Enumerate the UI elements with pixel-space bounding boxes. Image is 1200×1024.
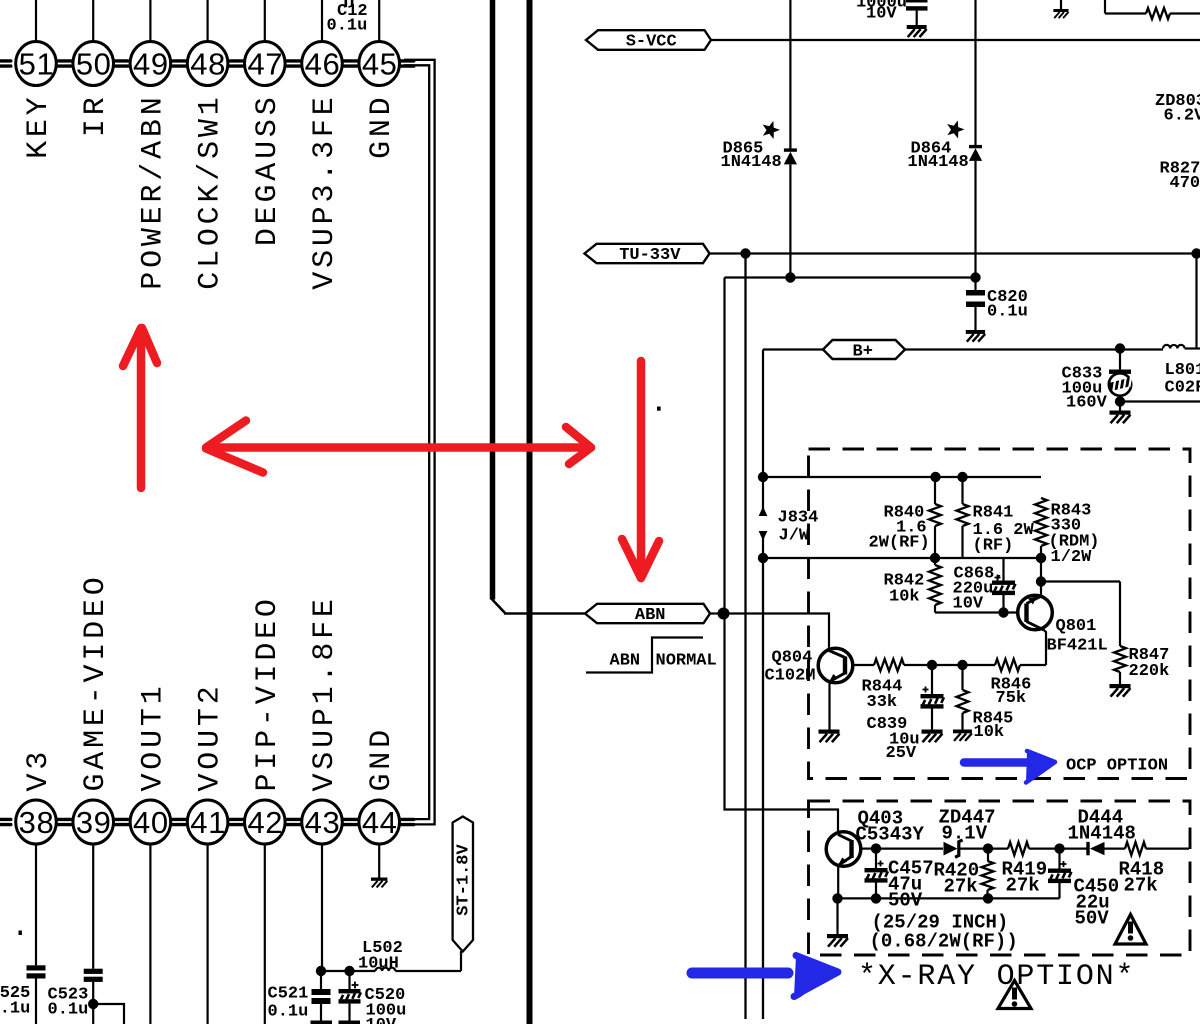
- transistor Q804 (C102M): [765, 648, 853, 729]
- svg-text:10k: 10k: [889, 588, 920, 607]
- svg-text:48: 48: [190, 47, 226, 82]
- svg-text:160V: 160V: [1066, 394, 1108, 413]
- dot artifact mid: [657, 407, 661, 411]
- svg-text:51: 51: [19, 47, 55, 82]
- svg-text:1N4148: 1N4148: [721, 153, 782, 172]
- svg-text:1/2W: 1/2W: [1051, 548, 1093, 567]
- svg-text:43: 43: [305, 805, 341, 840]
- resistor R847: [1114, 582, 1169, 685]
- svg-text:6.2V: 6.2V: [1164, 107, 1200, 126]
- wire to ST flag: [460, 951, 462, 971]
- svg-text:0.1u: 0.1u: [48, 1001, 89, 1020]
- warning triangle 2: [998, 981, 1031, 1009]
- svg-text:39: 39: [76, 805, 112, 840]
- junction C457 bottom: [871, 893, 881, 903]
- jumper J834: [759, 477, 819, 558]
- wire S-VCC: [711, 39, 1200, 41]
- junction C839: [927, 660, 937, 670]
- svg-text:GAME-VIDEO: GAME-VIDEO: [79, 573, 113, 791]
- ABN/NORMAL waveform: [586, 638, 717, 673]
- svg-text:10uH: 10uH: [358, 955, 399, 974]
- flag B+: [823, 340, 905, 362]
- IC pin 45 (GND): [359, 0, 400, 159]
- capacitor C450: [1048, 849, 1119, 930]
- IC pin 43 (VSUP1.8FE): [302, 595, 343, 844]
- junction R420 bottom: [983, 893, 993, 903]
- svg-text:*X-RAY OPTION*: *X-RAY OPTION*: [858, 960, 1135, 994]
- wire C523 to right down: [93, 1004, 124, 1024]
- svg-text:VSUP1.8FE: VSUP1.8FE: [308, 595, 342, 791]
- wire pin39 down: [92, 844, 94, 969]
- svg-text:KEY: KEY: [22, 94, 56, 159]
- wire B+ right: [905, 348, 1163, 350]
- capacitor C839: [867, 665, 945, 763]
- IC pin 38 (V3): [16, 748, 57, 844]
- wire C833 right: [1120, 400, 1200, 402]
- wire TU-33V: [710, 252, 1200, 254]
- junction emitter node: [1036, 576, 1046, 586]
- dot artifact left: [19, 931, 22, 936]
- wire to R846: [963, 664, 996, 666]
- blue arrow X-RAY: [692, 956, 838, 997]
- svg-text:50V: 50V: [1075, 908, 1110, 930]
- junction d864 common: [970, 272, 980, 282]
- junction R840 bottom: [930, 553, 940, 563]
- resistor R842: [884, 558, 942, 613]
- svg-text:50: 50: [76, 47, 112, 82]
- svg-text:50V: 50V: [888, 890, 923, 912]
- resistor R841: [957, 477, 1035, 558]
- junction TU-33V: [740, 248, 750, 258]
- resistor R840: [869, 477, 942, 558]
- ground top (x=1061): [1053, 0, 1068, 18]
- svg-text:CLOCK/SW1: CLOCK/SW1: [194, 94, 228, 290]
- red arrow down: [622, 361, 659, 578]
- svg-text:1N4148: 1N4148: [1068, 823, 1136, 845]
- wire ABN down to Q403: [725, 614, 839, 832]
- OCP option box (dashed): [809, 449, 1191, 779]
- transistor Q403 (C5343Y): [826, 808, 924, 899]
- svg-text:J/W: J/W: [779, 527, 810, 546]
- box corner with resistor (top right): [1105, 0, 1200, 19]
- capacitor C457: [865, 849, 934, 912]
- svg-text:ABN: ABN: [610, 652, 641, 671]
- svg-text:Q804: Q804: [772, 649, 813, 668]
- wire Q804 base: [853, 664, 874, 666]
- resistor R845: [957, 665, 1014, 742]
- svg-text:POWER/ABN: POWER/ABN: [136, 94, 170, 290]
- svg-text:BF421L: BF421L: [1047, 637, 1108, 656]
- svg-text:0.1u: 0.1u: [987, 303, 1028, 322]
- IC pin 46 (VSUP3.3FE): [302, 0, 343, 290]
- X-RAY bottom rail: [838, 897, 1060, 899]
- svg-text:44: 44: [362, 805, 398, 840]
- ground Q403: [827, 898, 848, 946]
- capacitor C523: [48, 969, 103, 1024]
- inductor L801: [1163, 345, 1200, 398]
- resistor R419: [1002, 842, 1060, 896]
- junction R845: [957, 660, 967, 670]
- svg-text:C5343Y: C5343Y: [856, 824, 925, 846]
- wire pin43 down: [321, 844, 323, 971]
- label OCP OPTION: [1066, 757, 1168, 776]
- wire pin42 down: [264, 844, 266, 1024]
- bus line A (to ABN flag): [491, 0, 586, 614]
- capacitor C525: [0, 965, 46, 1024]
- inductor L502: [358, 939, 461, 974]
- diode D865: [721, 0, 798, 278]
- svg-text:27k: 27k: [1124, 875, 1158, 897]
- svg-text:VOUT2: VOUT2: [194, 682, 228, 791]
- svg-text:38: 38: [19, 805, 55, 840]
- resistor R844: [862, 659, 933, 712]
- diode D864: [908, 0, 983, 278]
- svg-text:49: 49: [133, 47, 169, 82]
- junction C450: [1054, 843, 1064, 853]
- svg-text:41: 41: [190, 805, 226, 840]
- junction R843 bottom: [1036, 553, 1046, 563]
- resistor R846: [991, 659, 1047, 708]
- junction R843 node: [1036, 553, 1046, 563]
- svg-text:NORMAL: NORMAL: [656, 652, 717, 671]
- svg-text:PIP-VIDEO: PIP-VIDEO: [251, 595, 285, 791]
- wire ABN to Q804: [725, 614, 830, 649]
- svg-text:V3: V3: [22, 748, 56, 792]
- svg-text:46: 46: [305, 47, 341, 82]
- svg-text:9.1V: 9.1V: [942, 823, 988, 845]
- junction B+ rail top: [758, 472, 768, 482]
- svg-text:C02F: C02F: [1165, 379, 1200, 398]
- svg-text:10k: 10k: [974, 723, 1005, 742]
- svg-text:VSUP3.3FE: VSUP3.3FE: [308, 94, 342, 290]
- junction B+ C833: [1115, 343, 1125, 353]
- svg-text:GND: GND: [365, 94, 399, 159]
- svg-text:27k: 27k: [944, 876, 978, 898]
- junction R841 top: [957, 472, 967, 482]
- svg-text:B+: B+: [853, 343, 873, 362]
- capacitor C520: [339, 971, 407, 1024]
- svg-text:R841: R841: [973, 504, 1014, 523]
- warning triangle 1: [1115, 915, 1146, 945]
- svg-text:(0.68/2W(RF)): (0.68/2W(RF)): [870, 931, 1018, 953]
- wire R843 to emitter node: [1040, 558, 1042, 582]
- red arrow up: [123, 328, 157, 488]
- wire ABN riser (x=724.5): [723, 278, 725, 614]
- wire TU-33V down (x=745.5): [744, 254, 746, 1020]
- svg-text:33k: 33k: [867, 693, 898, 712]
- pin stubs bottom row: [0, 818, 416, 827]
- svg-text:27k: 27k: [1006, 875, 1040, 897]
- resistor R843: [1035, 498, 1100, 567]
- IC pin 49 (POWER/ABN): [130, 0, 171, 290]
- ground R847: [1110, 684, 1131, 697]
- label ZD803: [1155, 92, 1200, 126]
- IC pin 50 (IR): [73, 0, 114, 137]
- svg-text:0.1u: 0.1u: [268, 1003, 309, 1022]
- svg-text:10V: 10V: [953, 595, 984, 614]
- wire zener to R419: [958, 847, 1008, 849]
- junction C868 base: [998, 607, 1008, 617]
- resistor R418: [1119, 842, 1190, 896]
- junction J834 bottom: [758, 553, 768, 563]
- label R827: [1160, 160, 1200, 194]
- svg-text:ABN: ABN: [635, 606, 666, 625]
- junction R420: [983, 843, 993, 853]
- junction Q403 base: [871, 843, 881, 853]
- OCP top rail: [763, 476, 1041, 478]
- ground pin44: [371, 844, 387, 887]
- svg-text:Q801: Q801: [1056, 617, 1097, 636]
- zener ZD447: [939, 807, 996, 858]
- svg-text:1N4148: 1N4148: [908, 153, 969, 172]
- svg-text:75k: 75k: [996, 689, 1027, 708]
- IC pin 40 (VOUT1): [130, 682, 171, 844]
- flag ST-1.8V: [453, 817, 474, 952]
- junction d865 common: [785, 272, 795, 282]
- IC pin 47 (DEGAUSS): [244, 0, 285, 246]
- svg-text:OCP OPTION: OCP OPTION: [1066, 757, 1168, 776]
- wire pin41 down: [207, 844, 209, 1024]
- junction TU right edge: [1191, 248, 1200, 258]
- svg-text:C102M: C102M: [765, 667, 816, 686]
- svg-text:45: 45: [362, 47, 398, 82]
- svg-text:VOUT1: VOUT1: [136, 682, 170, 791]
- X-RAY option box (dashed): [809, 801, 1191, 955]
- IC pin 39 (GAME-VIDEO): [73, 573, 114, 844]
- double wire pin45 to pin44: [404, 60, 435, 825]
- blue arrow OCP: [964, 751, 1055, 783]
- junction ABN: [718, 608, 730, 620]
- ground C839: [922, 730, 943, 743]
- svg-text:25V: 25V: [886, 744, 917, 763]
- wire base to zener: [876, 847, 943, 849]
- svg-text:40: 40: [133, 805, 169, 840]
- ground Q804: [819, 730, 840, 743]
- svg-text:10V: 10V: [366, 1016, 397, 1024]
- wire emitter node right: [1041, 580, 1120, 582]
- capacitor C12: [327, 0, 368, 36]
- IC pin 42 (PIP-VIDEO): [244, 595, 285, 844]
- wire Q801 base: [935, 611, 1018, 613]
- flag ABN: [504, 604, 725, 625]
- wire pin40 down: [149, 844, 151, 1024]
- svg-text:2W(RF): 2W(RF): [869, 534, 930, 553]
- OCP bottom rail: [763, 557, 1041, 559]
- junction R840 top: [930, 472, 940, 482]
- svg-text:(RF): (RF): [973, 537, 1014, 556]
- capacitor 1000u/10V (top): [856, 0, 928, 37]
- label X-RAY OPTION: [858, 960, 1135, 994]
- svg-text:J834: J834: [778, 509, 819, 528]
- ground R845: [953, 730, 972, 741]
- wire Q801 collector: [1044, 630, 1047, 665]
- bus line B (vertical): [527, 0, 533, 1024]
- wire L502 rail: [321, 970, 376, 972]
- svg-text:470: 470: [1170, 174, 1200, 193]
- svg-text:S-VCC: S-VCC: [626, 33, 677, 52]
- svg-text:L801: L801: [1165, 361, 1200, 380]
- resistor R420: [934, 849, 994, 899]
- svg-text:220k: 220k: [1129, 662, 1170, 681]
- svg-text:47: 47: [247, 47, 283, 82]
- wire B+ left: [763, 350, 823, 478]
- transistor Q801 (BF421L): [1018, 582, 1108, 656]
- svg-text:42: 42: [247, 805, 283, 840]
- svg-text:IR: IR: [79, 94, 113, 138]
- wire diode common rail: [725, 276, 976, 278]
- svg-text:DEGAUSS: DEGAUSS: [251, 94, 285, 247]
- wire mid: [932, 664, 963, 666]
- pin stubs top row: [0, 59, 416, 68]
- wire Q403 base: [861, 847, 876, 849]
- capacitor C820: [966, 278, 1028, 342]
- svg-text:0.1u: 0.1u: [327, 17, 368, 36]
- svg-text:TU-33V: TU-33V: [619, 246, 681, 265]
- node L502 junctions: [316, 966, 355, 976]
- svg-text:GND: GND: [365, 726, 399, 791]
- svg-text:0.1u: 0.1u: [0, 1000, 30, 1019]
- flag TU-33V: [585, 244, 710, 265]
- flag S-VCC: [586, 30, 711, 51]
- wire B+ line down (x=763): [762, 558, 764, 1019]
- wire right edge down: [1195, 254, 1197, 349]
- svg-text:10V: 10V: [866, 5, 897, 24]
- IC pin 41 (VOUT2): [187, 682, 228, 844]
- IC pin 51 (KEY): [16, 0, 57, 159]
- capacitor C521: [268, 971, 333, 1024]
- capacitor C833: [1062, 349, 1134, 424]
- label 25/29 INCH: [870, 912, 1018, 953]
- svg-text:C521: C521: [268, 985, 309, 1004]
- junction Q403 emitter: [832, 893, 842, 903]
- IC pin 48 (CLOCK/SW1): [187, 0, 228, 290]
- diode D444: [1060, 807, 1136, 856]
- capacitor C868: [953, 558, 1017, 614]
- IC pin 44 (GND): [359, 726, 400, 844]
- wire pin38 down: [35, 844, 37, 965]
- red arrow horizontal (double headed): [206, 421, 591, 473]
- junction C523 out: [88, 999, 98, 1009]
- svg-text:ST-1.8V: ST-1.8V: [454, 844, 473, 916]
